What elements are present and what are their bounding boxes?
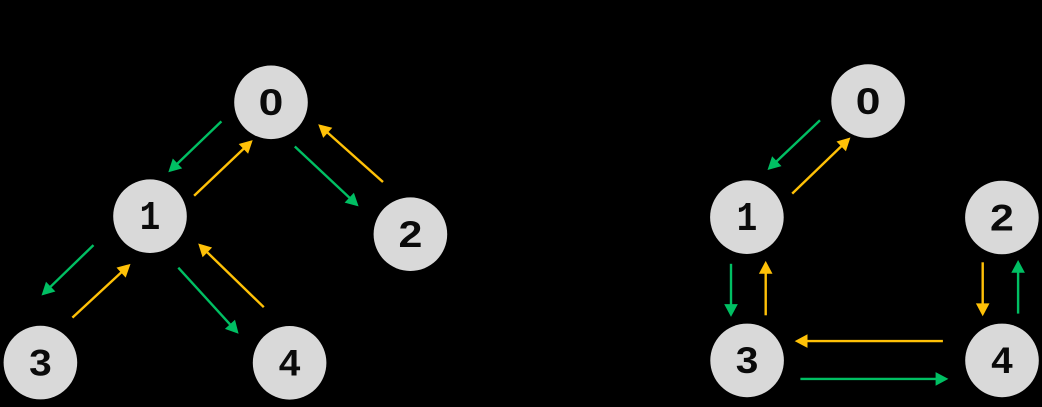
arrow left edge 0->1 (green) <box>168 121 221 172</box>
arrow left edge 3->1 (orange) <box>72 264 130 318</box>
arrow left edge 1->0 (orange) <box>194 140 253 196</box>
svg-text:0: 0 <box>856 80 881 122</box>
node 2 (right graph) <box>965 181 1039 255</box>
node 4 (left graph) <box>253 326 327 400</box>
node 1 (right graph) <box>710 180 784 254</box>
arrow right edge 0->1 (green) <box>768 120 821 170</box>
svg-text:1: 1 <box>737 196 758 243</box>
node 1 (left graph) <box>113 179 187 253</box>
node 0 (right graph) <box>831 64 905 138</box>
svg-text:3: 3 <box>736 341 759 382</box>
node 0 (left graph) <box>234 66 308 140</box>
node 4 (right graph) <box>965 324 1039 398</box>
arrow right edge 3->1 (orange) <box>759 261 773 315</box>
node 3 (right graph) <box>710 324 784 398</box>
arrow right edge 1->0 (orange) <box>792 138 850 194</box>
arrow left edge 1->4 (green) <box>178 268 238 334</box>
svg-text:1: 1 <box>140 195 161 242</box>
node 2 (left graph) <box>374 197 448 271</box>
arrow right edge 1->3 (green) <box>724 264 738 317</box>
arrow left edge 2->0 (orange) <box>318 124 383 182</box>
svg-text:3: 3 <box>29 343 52 384</box>
arrow right edge 3->4 (green) <box>800 372 948 386</box>
svg-text:2: 2 <box>398 215 422 256</box>
arrow left edge 0->2 (green) <box>295 147 359 207</box>
svg-text:4: 4 <box>279 342 300 383</box>
arrow left edge 4->1 (orange) <box>198 244 264 308</box>
arrow right edge 4->2 (green) <box>1011 260 1025 314</box>
arrow left edge 1->3 (green) <box>42 245 94 295</box>
arrow right edge 4->3 (orange) <box>795 334 943 348</box>
arrow right edge 2->4 (orange) <box>976 262 990 316</box>
node 3 (left graph) <box>4 326 78 400</box>
svg-text:4: 4 <box>991 340 1012 381</box>
svg-text:2: 2 <box>990 198 1014 239</box>
svg-text:0: 0 <box>259 82 284 124</box>
